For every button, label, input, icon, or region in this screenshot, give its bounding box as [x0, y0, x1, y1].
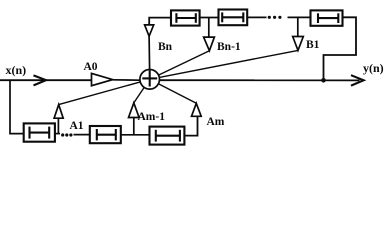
- svg-text:B1: B1: [306, 39, 320, 51]
- gain Am: [192, 103, 202, 116]
- delay block DB3 (bottom right): [150, 127, 185, 145]
- wire stub after DB1: [55, 133, 60, 135]
- wire top corner to Bn: [149, 18, 171, 25]
- summer U1: [140, 70, 160, 90]
- svg-text:Bn: Bn: [158, 41, 173, 53]
- output arrowhead: [351, 75, 364, 85]
- gain A1: [57, 118, 59, 134]
- wire dots to DT3: [288, 16, 311, 18]
- svg-text:A0: A0: [84, 61, 98, 73]
- wire summer to output: [160, 79, 360, 81]
- delay block DT1 (top left): [171, 10, 200, 25]
- ellipsis dots top: [268, 16, 282, 19]
- wire input branch down to bottom delay line: [10, 80, 24, 133]
- delay block DT3 (top right): [311, 10, 343, 25]
- node junction dot: [321, 78, 326, 83]
- delay block DT2 (top middle): [219, 10, 248, 26]
- gain Bn: [145, 25, 154, 36]
- svg-text:A1: A1: [70, 120, 84, 132]
- wire DB3 to Am: [184, 116, 197, 135]
- svg-text:Am-1: Am-1: [138, 111, 166, 123]
- delay block DB1 (bottom left): [24, 123, 55, 141]
- wire dots to DB2: [74, 134, 90, 136]
- wire A0 to summer: [113, 79, 140, 81]
- wire input x(n) line: [0, 79, 92, 81]
- svg-text:Bn-1: Bn-1: [217, 41, 241, 53]
- svg-text:Am: Am: [207, 116, 225, 128]
- input arrowhead: [34, 75, 47, 85]
- gain A0: [92, 73, 113, 85]
- gain Am-1: [133, 118, 135, 135]
- delay block DB2 (bottom middle): [90, 126, 121, 143]
- svg-text:y(n): y(n): [363, 61, 384, 75]
- wire DT2 to dots: [247, 16, 266, 18]
- ellipsis dots bottom: [61, 133, 72, 136]
- svg-text:x(n): x(n): [6, 63, 27, 77]
- gain Bn-1: [208, 18, 210, 38]
- wire feedback from output node up to DT3: [324, 17, 357, 80]
- gain B1: [297, 17, 299, 36]
- wire DB2 to DB3: [121, 134, 150, 136]
- wire DT1 to DT2: [200, 17, 219, 19]
